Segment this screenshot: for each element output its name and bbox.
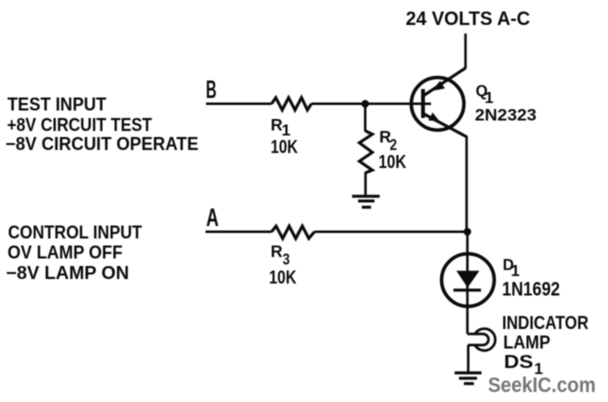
svg-text:1N1692: 1N1692 <box>502 279 560 300</box>
svg-text:10K: 10K <box>269 267 297 288</box>
svg-text:CONTROL INPUT: CONTROL INPUT <box>8 223 142 243</box>
svg-text:B: B <box>206 76 217 104</box>
svg-text:INDICATOR: INDICATOR <box>502 313 588 333</box>
svg-text:TEST INPUT: TEST INPUT <box>7 95 106 115</box>
svg-text:1: 1 <box>485 90 494 107</box>
svg-text:2N2323: 2N2323 <box>475 106 537 125</box>
svg-text:10K: 10K <box>379 151 407 172</box>
svg-text:−8V CIRCUIT OPERATE: −8V CIRCUIT OPERATE <box>6 134 199 154</box>
svg-text:DS: DS <box>504 352 533 372</box>
svg-text:−8V LAMP ON: −8V LAMP ON <box>6 263 129 283</box>
svg-text:24 VOLTS A-C: 24 VOLTS A-C <box>406 9 531 30</box>
svg-text:+8V CIRCUIT TEST: +8V CIRCUIT TEST <box>7 115 152 135</box>
svg-text:OV LAMP OFF: OV LAMP OFF <box>8 243 123 263</box>
svg-text:SeekIC.com: SeekIC.com <box>488 373 596 397</box>
svg-text:R: R <box>271 243 283 261</box>
svg-text:1: 1 <box>511 263 520 280</box>
svg-text:LAMP: LAMP <box>503 332 550 352</box>
svg-text:10K: 10K <box>271 136 299 157</box>
svg-text:A: A <box>206 204 219 232</box>
